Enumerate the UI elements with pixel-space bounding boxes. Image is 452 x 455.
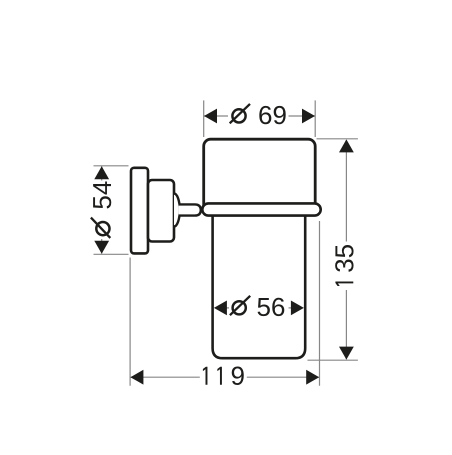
extension line Ø54 top	[94, 165, 129, 167]
arrow Ø69 left	[204, 109, 217, 124]
stem	[179, 204, 201, 215]
dimension line 135 lower segment	[345, 290, 347, 359]
arrow Ø69 right	[302, 109, 315, 124]
extension line 119 right	[319, 221, 321, 386]
extension line 119 left	[129, 258, 131, 386]
arrow 119 right	[306, 370, 319, 385]
wall plate back disc	[131, 168, 148, 254]
tumbler lower body	[213, 209, 306, 358]
arrow 119 left	[130, 370, 143, 385]
dimension line Ø69 left segment	[204, 115, 228, 117]
wall plate front	[148, 180, 174, 242]
arrow 135 down	[339, 347, 354, 360]
collar dome	[174, 194, 180, 227]
extension line Ø69 left	[203, 100, 205, 137]
label 135	[335, 245, 353, 286]
dimension line Ø56 right segment	[289, 307, 292, 309]
extension line Ø54 bottom	[94, 253, 129, 255]
dimension line Ø54 upper segment	[101, 166, 103, 180]
extension line Ø69 right	[314, 100, 316, 137]
holder ring	[202, 203, 320, 215]
arrow 135 up	[339, 139, 354, 152]
tumbler upper body	[204, 139, 316, 214]
label Ø54	[91, 181, 111, 237]
arrow Ø54 down	[94, 241, 109, 254]
label 119	[203, 367, 244, 385]
dimension line 135 upper segment	[345, 140, 347, 242]
extension line 135 bottom	[308, 359, 358, 361]
arrow Ø56 left	[214, 301, 227, 316]
extension line 135 top	[317, 138, 358, 140]
dimension line 119 left segment	[131, 376, 200, 378]
dimension line Ø56 left segment	[227, 307, 230, 309]
arrow Ø56 right	[291, 301, 304, 316]
dimension line 119 right segment	[247, 376, 319, 378]
dimension line Ø54 lower segment	[101, 239, 103, 254]
dimension line Ø69 right segment	[289, 115, 316, 117]
label Ø56	[230, 296, 284, 316]
label Ø69	[230, 104, 286, 124]
arrow Ø54 up	[94, 166, 109, 179]
